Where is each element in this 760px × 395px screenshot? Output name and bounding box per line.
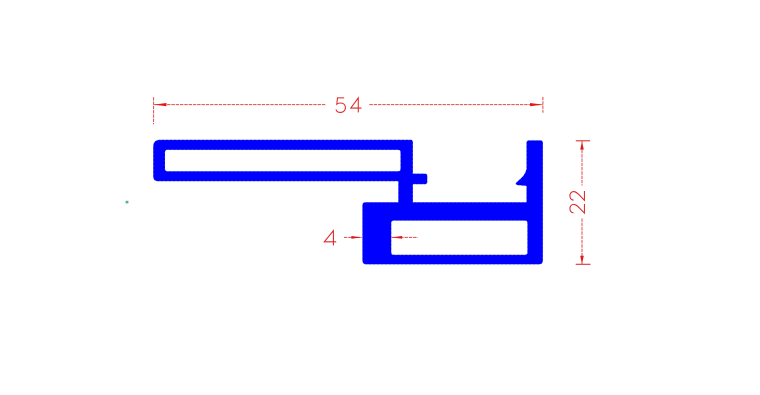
stray teal snap marker	[126, 201, 129, 204]
dimension 22: dimension line upper segment	[581, 141, 583, 185]
dimension 22: value label "22" (rotated, reads bottom to top)	[570, 191, 585, 213]
dimension 4: right dimension line	[392, 236, 418, 238]
dimension 54: right extension line	[542, 97, 544, 113]
dimension 54: left extension line	[153, 97, 155, 124]
dimension 54: right arrowhead	[530, 103, 543, 106]
dimension 22: top tick	[576, 140, 590, 142]
dimension 22: dimension line lower segment	[581, 219, 583, 265]
dimension 54: left arrowhead	[154, 103, 167, 106]
dimension 22: bottom tick	[576, 263, 591, 265]
dimension 4: value label "4"	[324, 231, 336, 246]
dimension 22: top arrowhead (pointing up)	[580, 141, 584, 149]
pale dashed boundary highlight over profile edges	[153, 140, 543, 265]
dimension 4: right arrowhead (pointing left)	[392, 236, 403, 239]
dimension 22: bottom arrowhead (pointing down)	[580, 256, 584, 264]
dimension 4: left arrowhead (pointing right)	[351, 236, 362, 239]
dimension 54: dimension line left segment	[154, 104, 325, 106]
aluminum profile cross-section (blue filled outline with two hollow cavities)	[153, 140, 543, 265]
dimension 4: left dimension line	[344, 236, 362, 238]
dimension 54: value label "54"	[336, 98, 361, 113]
dimension 54: dimension line right segment	[369, 104, 542, 106]
